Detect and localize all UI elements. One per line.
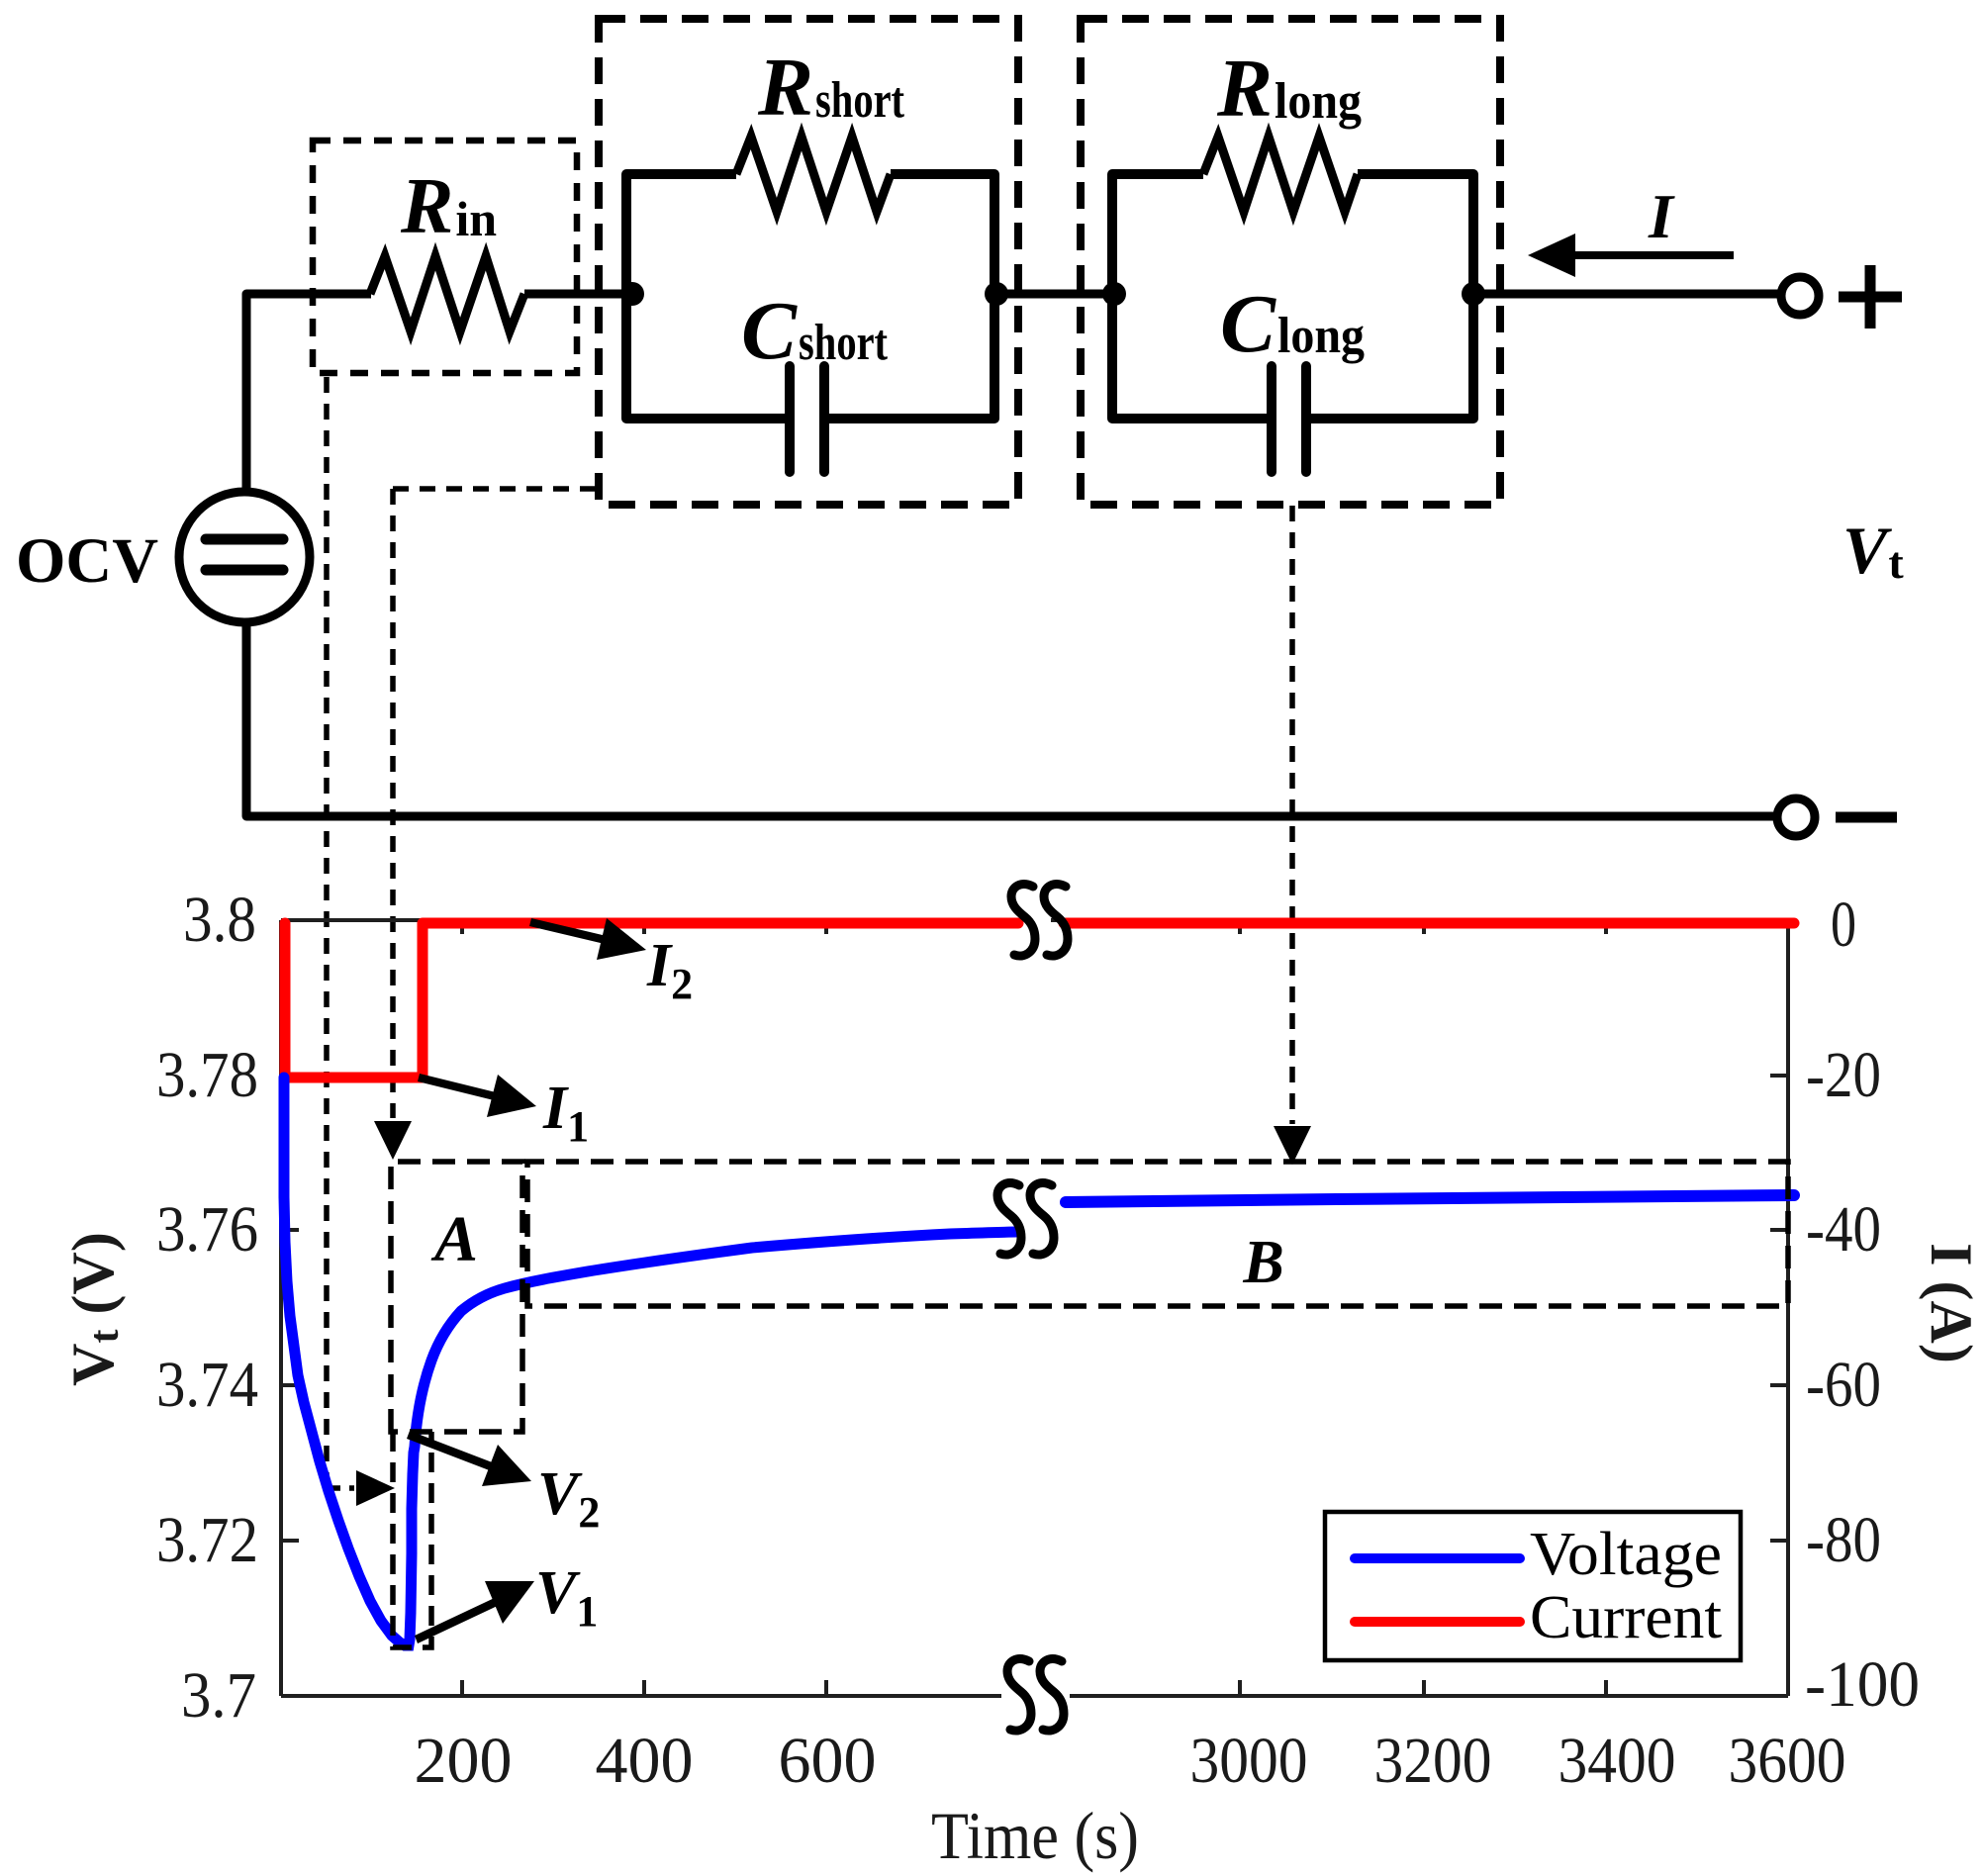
dashed box R_in <box>313 141 577 373</box>
resistor R_short <box>736 137 891 212</box>
svg-text:3.72: 3.72 <box>156 1504 258 1576</box>
svg-text:-80: -80 <box>1806 1504 1881 1576</box>
axis break glyphs on current curve <box>1011 885 1068 956</box>
dashed box RC long <box>1081 19 1500 505</box>
svg-text:3200: 3200 <box>1374 1725 1492 1797</box>
svg-text:I (A): I (A) <box>1919 1243 1984 1363</box>
arrow to I1 <box>418 1074 536 1117</box>
arrowhead down (box B leader) <box>1274 1126 1311 1165</box>
axis tick marks <box>281 920 1788 1696</box>
legend box <box>1325 1512 1741 1660</box>
svg-text:3400: 3400 <box>1559 1725 1676 1797</box>
current arrow I <box>1528 234 1734 277</box>
svg-text:0: 0 <box>1831 889 1856 961</box>
svg-text:Vt (V): Vt (V) <box>60 1232 128 1386</box>
node junction c <box>1102 282 1126 306</box>
arrow to V2 <box>407 1431 531 1486</box>
RC pair short: loop wires <box>626 174 994 419</box>
svg-text:OCV: OCV <box>16 525 158 597</box>
dashed leader from R_in box to plot <box>327 377 354 1488</box>
svg-text:Voltage: Voltage <box>1530 1521 1722 1588</box>
resistor R_in <box>370 256 524 331</box>
svg-text:Current: Current <box>1530 1584 1722 1651</box>
x-axis tick labels <box>415 1725 1846 1797</box>
positive terminal <box>1781 265 1902 328</box>
dashed leader from C_long to box B <box>1289 506 1295 1124</box>
svg-text:3.78: 3.78 <box>156 1039 258 1111</box>
wire RC-short to RC-long <box>994 290 1114 299</box>
svg-text:600: 600 <box>779 1725 877 1797</box>
svg-text:3600: 3600 <box>1729 1725 1846 1797</box>
svg-text:3.7: 3.7 <box>181 1659 256 1732</box>
svg-text:-100: -100 <box>1805 1648 1920 1721</box>
svg-text:Time (s): Time (s) <box>931 1798 1139 1873</box>
capacitor C_short <box>790 366 824 472</box>
wire OCV to R_in <box>246 294 371 492</box>
current curve (red) right segment <box>1064 918 1794 929</box>
svg-text:-60: -60 <box>1806 1349 1881 1421</box>
svg-text:-40: -40 <box>1806 1193 1881 1266</box>
svg-text:3.76: 3.76 <box>156 1193 258 1266</box>
right y-axis tick labels <box>1805 889 1920 1721</box>
capacitor C_long <box>1272 366 1306 472</box>
legend current line <box>1355 1617 1520 1627</box>
svg-text:200: 200 <box>415 1725 513 1797</box>
arrow to I2 <box>529 918 646 960</box>
wire RC-long to positive terminal <box>1473 290 1778 299</box>
negative terminal <box>1777 798 1897 836</box>
arrowhead down (box A leader) <box>374 1121 412 1160</box>
plot axes box <box>281 920 1788 1696</box>
node junction d <box>1462 282 1485 306</box>
left y-axis tick labels <box>156 884 258 1732</box>
wire R_in to node A <box>524 290 626 299</box>
dashed box A <box>391 1162 522 1432</box>
svg-text:-20: -20 <box>1806 1039 1881 1111</box>
svg-text:3000: 3000 <box>1190 1725 1308 1797</box>
arrow to V1 <box>415 1581 534 1643</box>
svg-text:B: B <box>1242 1229 1283 1296</box>
voltage curve (blue) right segment <box>1066 1195 1794 1202</box>
legend voltage line <box>1355 1553 1520 1563</box>
voltage source OCV <box>179 492 310 622</box>
wire bottom rail <box>246 622 1773 816</box>
RC pair long: loop wires <box>1112 174 1473 419</box>
svg-text:400: 400 <box>596 1725 694 1797</box>
svg-text:3.8: 3.8 <box>183 884 256 956</box>
dashed leader to box A <box>393 489 598 1118</box>
axis break glyphs on time axis <box>1007 1659 1064 1731</box>
current curve (red) left segment <box>285 923 1018 1078</box>
voltage curve (blue) left segment <box>284 1078 1016 1645</box>
dashed narrow box V1-V2 <box>393 1432 431 1647</box>
dashed box RC short <box>599 19 1018 505</box>
svg-text:I: I <box>1648 181 1675 251</box>
svg-text:3.74: 3.74 <box>156 1349 258 1421</box>
arrowhead right (R_in leader) <box>356 1470 395 1506</box>
node junction a <box>620 282 644 306</box>
svg-text:A: A <box>430 1203 478 1275</box>
resistor R_long <box>1203 137 1358 212</box>
axis break glyphs on voltage curve <box>997 1183 1054 1255</box>
node junction b <box>985 282 1008 306</box>
dashed box B <box>527 1162 1788 1306</box>
